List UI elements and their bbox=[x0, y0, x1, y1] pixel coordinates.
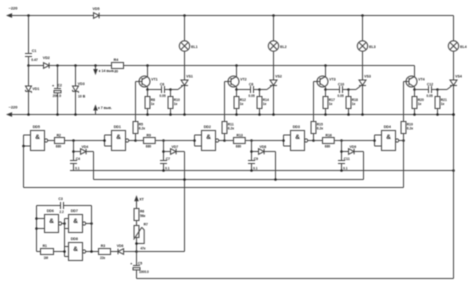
svg-text:6.2к: 6.2к bbox=[228, 127, 235, 131]
node junction R20 bottom rail bbox=[413, 113, 416, 116]
node junction DD6 input 2 bbox=[35, 227, 38, 230]
svg-text:1к: 1к bbox=[441, 102, 445, 106]
gate DD2 (NAND) bbox=[202, 131, 216, 151]
svg-text:&: & bbox=[206, 134, 211, 141]
wire emitter row ch2 bbox=[237, 89, 251, 91]
gate DD8 (NAND) bbox=[65, 246, 69, 248]
resistor R20 1k bbox=[414, 90, 416, 97]
diode VD4 bbox=[74, 151, 81, 153]
svg-text:VS4: VS4 bbox=[455, 74, 462, 78]
node junction C2 top bbox=[56, 64, 59, 67]
svg-text:0.1: 0.1 bbox=[253, 166, 258, 170]
node junction cap line bbox=[162, 169, 165, 172]
gate DD6 (NAND) bbox=[45, 215, 59, 233]
svg-text:~220: ~220 bbox=[9, 6, 19, 11]
svg-text:56к: 56к bbox=[140, 214, 146, 218]
wire DD5 inputs bracket bbox=[23, 135, 25, 146]
diode VD8 bbox=[252, 151, 259, 153]
capacitor C12 0.05 bbox=[428, 86, 430, 93]
svg-text:0.05: 0.05 bbox=[249, 94, 255, 98]
wire DD7 output bbox=[86, 223, 92, 225]
svg-text:VD7: VD7 bbox=[172, 145, 179, 149]
capacitor C7 0.1 bbox=[160, 160, 167, 162]
svg-text:&: & bbox=[116, 134, 121, 141]
wire lamp to VS3 bbox=[362, 51, 364, 80]
wire XT node to generator riser bbox=[137, 251, 185, 253]
node junction R7 wiper bbox=[135, 242, 138, 245]
resistor R21 1k bbox=[437, 90, 439, 97]
wire R13 to next gate bbox=[225, 140, 234, 142]
node junction bottom rail bbox=[74, 113, 77, 116]
node junction DD4 input bbox=[373, 139, 376, 142]
svg-text:EL4: EL4 bbox=[460, 45, 467, 49]
svg-text:680: 680 bbox=[325, 144, 331, 148]
svg-text:VT2: VT2 bbox=[240, 77, 247, 81]
svg-text:C2: C2 bbox=[58, 84, 62, 88]
svg-text:6.2к: 6.2к bbox=[139, 127, 146, 131]
wire emitter row ch4 bbox=[415, 89, 429, 91]
resistor R14 1k bbox=[259, 90, 261, 97]
svg-text:~220: ~220 bbox=[9, 105, 19, 110]
capacitor C4 0.1 bbox=[70, 160, 77, 162]
wire DD4 output bbox=[399, 140, 404, 142]
gate DD3 (NAND) bbox=[291, 131, 305, 151]
wire mid rail to VT collectors bbox=[124, 65, 415, 67]
diode VD9 bbox=[342, 151, 349, 153]
resistor R17 1k bbox=[325, 90, 327, 97]
node junction VD3 top bbox=[74, 64, 77, 67]
node junction DD7 out / C3 loop bbox=[90, 222, 93, 225]
svg-text:VD5: VD5 bbox=[93, 7, 100, 11]
node k 7 vyv arrow bbox=[95, 110, 97, 115]
node junction R14 top bbox=[258, 88, 261, 91]
wire C6 to gate of VS1 bbox=[165, 89, 171, 91]
svg-text:VT4: VT4 bbox=[418, 77, 425, 81]
svg-text:0.1: 0.1 bbox=[75, 166, 80, 170]
node junction VT2 emitter bbox=[235, 88, 238, 91]
node junction top rail EL1 bbox=[183, 14, 186, 17]
svg-text:C3: C3 bbox=[58, 197, 62, 201]
resistor R1 1M bbox=[37, 251, 41, 253]
wire emitter row ch3 bbox=[326, 89, 340, 91]
svg-text:VD4: VD4 bbox=[82, 145, 89, 149]
svg-text:R2: R2 bbox=[57, 133, 61, 137]
wire DD3 input bracket bbox=[283, 135, 285, 146]
node junction R18 top bbox=[347, 88, 350, 91]
resistor R5 6.2k (base of VT1) bbox=[135, 134, 137, 141]
resistor R10 1k bbox=[170, 90, 172, 97]
variable resistor R7 47k bbox=[134, 226, 139, 238]
svg-text:C11: C11 bbox=[344, 157, 350, 161]
node junction DD3 input bbox=[282, 139, 285, 142]
svg-text:DD4: DD4 bbox=[384, 125, 391, 129]
svg-text:VD3: VD3 bbox=[78, 82, 85, 86]
wire lamp to VS4 bbox=[453, 51, 455, 80]
resistor R18 1k bbox=[348, 90, 350, 97]
wire DD1 input bracket bbox=[104, 135, 106, 146]
wire right common vertical bbox=[453, 115, 455, 279]
node junction top rail C1 bbox=[27, 14, 30, 17]
node junction R12 bottom rail bbox=[235, 113, 238, 116]
node junction DD3 output / R15 bbox=[312, 139, 315, 142]
svg-text:VT1: VT1 bbox=[151, 77, 158, 81]
svg-text:+: + bbox=[130, 262, 132, 266]
svg-text:1М: 1М bbox=[44, 256, 49, 260]
node junction VS2 cathode rail bbox=[272, 113, 275, 116]
wire lamp EL1 top bbox=[184, 16, 186, 42]
svg-text:0.47: 0.47 bbox=[31, 58, 38, 62]
svg-text:к 7 выв.: к 7 выв. bbox=[98, 106, 112, 110]
wire VD4 cathode bbox=[86, 151, 93, 153]
node junction C1/VD2/VD1 bbox=[27, 64, 30, 67]
svg-text:C10: C10 bbox=[338, 82, 344, 86]
svg-text:1к: 1к bbox=[418, 102, 422, 106]
gate DD5 (NAND) bbox=[31, 131, 45, 151]
svg-text:&: & bbox=[73, 218, 78, 225]
svg-text:1к: 1к bbox=[240, 102, 244, 106]
svg-text:1к: 1к bbox=[352, 102, 356, 106]
svg-text:&: & bbox=[49, 218, 54, 225]
lamp EL3 bbox=[357, 41, 367, 51]
node junction R10 top bbox=[169, 88, 172, 91]
wire emitter row ch1 bbox=[148, 89, 162, 91]
wire DD4 output to feedback drop bbox=[399, 140, 404, 142]
svg-text:VS2: VS2 bbox=[275, 74, 282, 78]
wire DD4 input bracket bbox=[374, 135, 376, 146]
capacitor C10 0.05 bbox=[339, 86, 341, 93]
node junction VD6 / XT branch / C5 bbox=[135, 250, 138, 253]
wire VD9 cathode bbox=[354, 151, 363, 153]
node junction VT3 emitter bbox=[324, 88, 327, 91]
svg-text:0.05: 0.05 bbox=[427, 94, 433, 98]
svg-text:30: 30 bbox=[114, 70, 118, 74]
resistor R12 1k bbox=[236, 90, 238, 97]
node junction R8 bottom rail bbox=[146, 113, 149, 116]
svg-text:R3: R3 bbox=[101, 244, 105, 248]
svg-text:C7: C7 bbox=[166, 157, 170, 161]
wire R2 to DD1 bbox=[65, 140, 105, 142]
node junction VS4 cathode rail bbox=[452, 113, 455, 116]
wire generator mid vertical bbox=[64, 219, 66, 257]
svg-text:680: 680 bbox=[56, 144, 62, 148]
resistor R8 1k bbox=[147, 90, 149, 97]
svg-text:VT3: VT3 bbox=[329, 77, 336, 81]
zener diode VD3 10V bbox=[75, 66, 77, 87]
node junction R17 bottom rail bbox=[324, 113, 327, 116]
node junction R1 / DD6 out net bbox=[63, 250, 66, 253]
transistor VT1 bbox=[147, 66, 149, 77]
svg-text:47к: 47к bbox=[140, 247, 146, 251]
svg-text:DD8: DD8 bbox=[71, 237, 78, 241]
node junction VT4 emitter bbox=[413, 88, 416, 91]
svg-text:200.0: 200.0 bbox=[53, 94, 62, 98]
resistor R19 6.2k (base of VT4) bbox=[403, 134, 405, 141]
svg-text:DD1: DD1 bbox=[114, 125, 121, 129]
svg-text:&: & bbox=[73, 246, 78, 253]
svg-text:EL3: EL3 bbox=[369, 45, 376, 49]
svg-text:VD2: VD2 bbox=[43, 56, 50, 60]
svg-text:XT: XT bbox=[139, 197, 144, 201]
wire C12 to gate of VS4 bbox=[432, 89, 438, 91]
wire lamp EL2 top bbox=[273, 16, 275, 42]
node junction DD8 out bbox=[90, 250, 93, 253]
wire C8 to gate of VS2 bbox=[254, 89, 260, 91]
svg-text:R7: R7 bbox=[144, 223, 148, 227]
node junction R14 bottom rail bbox=[258, 113, 261, 116]
capacitor C8 0.05 bbox=[250, 86, 252, 93]
node junction VT1 collector bbox=[146, 64, 149, 67]
svg-text:&: & bbox=[35, 134, 40, 141]
svg-text:R1: R1 bbox=[43, 244, 47, 248]
svg-text:DD6: DD6 bbox=[47, 209, 54, 213]
node junction bottom rail bbox=[56, 113, 59, 116]
node junction VD9 branch bbox=[340, 150, 343, 153]
node junction cap line bbox=[340, 169, 343, 172]
node k 14 vyv arrow bbox=[94, 64, 97, 67]
node junction R21 top bbox=[436, 88, 439, 91]
capacitor C5 electrolytic 1000.0 bbox=[136, 252, 138, 266]
resistor R11 6.2k (base of VT2) bbox=[224, 134, 226, 141]
svg-text:1000.0: 1000.0 bbox=[139, 270, 149, 274]
svg-text:C12: C12 bbox=[427, 82, 433, 86]
node junction VD7 branch bbox=[162, 150, 165, 153]
wire lamp EL3 top bbox=[362, 16, 364, 42]
wire lamp EL4 top bbox=[453, 16, 455, 42]
node junction DD5 input feedback bbox=[22, 145, 25, 148]
wire cap common line bbox=[70, 170, 454, 172]
svg-text:+: + bbox=[52, 84, 55, 88]
wire VD7 cathode bbox=[176, 151, 184, 153]
node junction DD1 input bbox=[103, 139, 106, 142]
node junction cap line bbox=[250, 169, 253, 172]
svg-text:C8: C8 bbox=[249, 82, 253, 86]
svg-text:0.1: 0.1 bbox=[343, 166, 348, 170]
diode VD7 bbox=[164, 151, 171, 153]
lamp EL1 bbox=[179, 41, 189, 51]
svg-text:DD7: DD7 bbox=[71, 209, 78, 213]
wire stage 3 drop bbox=[251, 141, 253, 161]
resistor R15 6.2k (base of VT3) bbox=[313, 134, 315, 141]
svg-text:R13: R13 bbox=[237, 133, 243, 137]
wire generator right vertical bbox=[91, 206, 93, 252]
svg-text:2.2: 2.2 bbox=[59, 210, 64, 214]
node junction stage 4 output bbox=[340, 139, 343, 142]
wire VD8 cathode bbox=[264, 151, 275, 153]
wire R16 to next gate bbox=[314, 140, 323, 142]
wire DD2 output bbox=[219, 140, 225, 142]
svg-text:DD2: DD2 bbox=[204, 125, 211, 129]
svg-text:&: & bbox=[295, 134, 300, 141]
wire stage 2 drop bbox=[163, 141, 165, 161]
svg-text:C9: C9 bbox=[254, 157, 258, 161]
svg-text:680: 680 bbox=[146, 144, 152, 148]
svg-text:VS1: VS1 bbox=[186, 74, 193, 78]
svg-text:10 В: 10 В bbox=[78, 95, 86, 99]
svg-text:0.1: 0.1 bbox=[165, 166, 170, 170]
node junction VT1 emitter bbox=[146, 88, 149, 91]
capacitor C3 2.2 bbox=[37, 205, 61, 207]
wire mid rail left bbox=[29, 65, 44, 67]
lamp EL2 bbox=[268, 41, 278, 51]
wire R6 to R7 bbox=[136, 221, 138, 226]
svg-text:R4: R4 bbox=[114, 58, 119, 62]
svg-text:VD6: VD6 bbox=[117, 244, 124, 248]
node junction R18 bottom rail bbox=[347, 113, 350, 116]
node junction VS1 cathode rail bbox=[183, 113, 186, 116]
svg-text:C4: C4 bbox=[76, 157, 80, 161]
capacitor C9 0.1 bbox=[248, 160, 255, 162]
node XT terminal arrow bbox=[135, 197, 138, 201]
svg-text:6.2к: 6.2к bbox=[317, 127, 324, 131]
svg-text:DD5: DD5 bbox=[33, 125, 40, 129]
svg-text:R9: R9 bbox=[147, 133, 151, 137]
svg-text:VS3: VS3 bbox=[364, 74, 371, 78]
svg-text:DD3: DD3 bbox=[293, 125, 300, 129]
wire lamp to VS2 bbox=[273, 51, 275, 80]
node junction cap line right bbox=[452, 169, 455, 172]
wire stage 1 drop bbox=[73, 141, 75, 161]
svg-text:1к: 1к bbox=[263, 102, 267, 106]
node junction VD4 branch bbox=[72, 150, 75, 153]
capacitor C11 0.1 bbox=[338, 160, 345, 162]
wire feedback drop DD4 to DD5 bbox=[403, 141, 405, 188]
svg-text:0.05: 0.05 bbox=[160, 94, 166, 98]
node junction VS3 cathode rail bbox=[361, 113, 364, 116]
zener diode VD1 bbox=[28, 66, 30, 87]
svg-text:0.05: 0.05 bbox=[338, 94, 344, 98]
wire bottom ~220 rail bbox=[9, 114, 454, 116]
svg-text:6.2к: 6.2к bbox=[407, 127, 414, 131]
resistor R6 56k bbox=[134, 209, 139, 221]
wire DD2 input bracket bbox=[194, 135, 196, 146]
node junction clock/generator riser bbox=[183, 178, 186, 181]
node junction VT3 collector bbox=[324, 64, 327, 67]
svg-text:C5: C5 bbox=[138, 261, 142, 265]
svg-text:VD8: VD8 bbox=[260, 145, 267, 149]
svg-text:EL1: EL1 bbox=[191, 45, 198, 49]
transistor VT3 bbox=[325, 66, 327, 77]
svg-text:C1: C1 bbox=[32, 49, 37, 53]
node junction bottom rail bbox=[27, 113, 30, 116]
wire DD5 output bbox=[48, 140, 55, 142]
svg-text:R16: R16 bbox=[326, 133, 332, 137]
wire DD6 output bbox=[62, 223, 65, 225]
node junction DD2 input bbox=[193, 139, 196, 142]
svg-text:VD1: VD1 bbox=[32, 87, 39, 91]
wire top ~220 rail bbox=[9, 15, 94, 17]
node junction DD4 output / R19 bbox=[402, 139, 405, 142]
svg-text:C6: C6 bbox=[160, 82, 164, 86]
node junction stage 3 output bbox=[250, 139, 253, 142]
wire C10 to gate of VS3 bbox=[343, 89, 349, 91]
transistor VT4 bbox=[414, 66, 416, 77]
wire DD1 output bbox=[129, 140, 136, 142]
node junction DD6 input 1 bbox=[35, 217, 38, 220]
svg-text:к 14 выв.: к 14 выв. bbox=[99, 69, 115, 73]
wire bottom common line bbox=[137, 278, 454, 280]
svg-text:EL2: EL2 bbox=[280, 45, 287, 49]
gate DD4 (NAND) bbox=[382, 131, 396, 151]
wire generator left vertical bbox=[36, 206, 38, 252]
wire DD8 output bbox=[86, 251, 99, 253]
svg-text:1к: 1к bbox=[174, 102, 178, 106]
node junction stage 2 output bbox=[162, 139, 165, 142]
node junction VT2 collector bbox=[235, 64, 238, 67]
node junction clock VD8 bbox=[274, 178, 277, 181]
wire R9 to next gate bbox=[136, 140, 144, 142]
node junction DD6 out / DD7 DD8 inputs bbox=[63, 222, 66, 225]
svg-text:&: & bbox=[386, 134, 391, 141]
lamp EL4 bbox=[448, 41, 458, 51]
svg-text:680: 680 bbox=[236, 144, 242, 148]
transistor VT2 bbox=[236, 66, 238, 77]
gate DD1 (NAND) bbox=[112, 131, 126, 151]
wire lamp to VS1 bbox=[184, 51, 186, 80]
capacitor C1 0.47 bbox=[28, 16, 30, 54]
svg-text:22к: 22к bbox=[100, 256, 106, 260]
capacitor C2 electrolytic 200.0 bbox=[57, 66, 59, 89]
capacitor C6 0.05 bbox=[161, 86, 163, 93]
node junction VD8 branch bbox=[250, 150, 253, 153]
svg-text:VD9: VD9 bbox=[350, 145, 357, 149]
node ~220 bottom arrow bbox=[7, 113, 11, 116]
node junction R10 bottom rail bbox=[169, 113, 172, 116]
node junction DD1 output / R5 bbox=[134, 139, 137, 142]
node junction top rail EL2 bbox=[272, 14, 275, 17]
svg-text:1к: 1к bbox=[151, 102, 155, 106]
wire DD3 output bbox=[308, 140, 314, 142]
svg-text:1к: 1к bbox=[329, 102, 333, 106]
node junction DD2 output / R11 bbox=[223, 139, 226, 142]
node junction R21 bottom rail bbox=[436, 113, 439, 116]
node junction top rail EL3 bbox=[361, 14, 364, 17]
node junction stage 1 output bbox=[72, 139, 75, 142]
wire stage 4 drop bbox=[341, 141, 343, 161]
wire clock line bbox=[94, 179, 364, 181]
gate DD7 (NAND) bbox=[65, 218, 69, 220]
node ~220 top arrow bbox=[7, 14, 11, 17]
